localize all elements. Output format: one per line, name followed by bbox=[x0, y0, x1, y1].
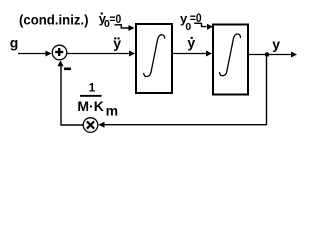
integral sign in U1 bbox=[144, 35, 165, 77]
svg-text:1: 1 bbox=[89, 83, 96, 95]
wire g to summing junction bbox=[18, 53, 47, 55]
svg-text:y: y bbox=[187, 34, 195, 50]
svg-text:(cond.iniz.): (cond.iniz.) bbox=[19, 11, 89, 27]
svg-text:=0: =0 bbox=[110, 14, 122, 26]
arrowhead into summing junction bbox=[58, 60, 64, 66]
svg-text:M·K: M·K bbox=[77, 98, 103, 114]
multiplier junction X1 bbox=[83, 118, 98, 133]
svg-text:g: g bbox=[10, 35, 19, 51]
integrator block U2 bbox=[213, 25, 248, 95]
wire integrator 1 to integrator 2 bbox=[173, 53, 207, 55]
wire integrator 2 to output bbox=[249, 54, 292, 56]
svg-text:m: m bbox=[106, 102, 118, 118]
summing junction S1 bbox=[52, 45, 67, 60]
svg-text:y: y bbox=[272, 36, 280, 52]
integrator block U1 bbox=[136, 24, 172, 93]
wire feedback vertical drop bbox=[266, 55, 268, 126]
arrowhead into multiplier bbox=[98, 122, 104, 128]
junction node on output wire bbox=[265, 52, 270, 57]
wire feedback bottom left segment bbox=[61, 124, 84, 126]
wire feedback bottom right segment bbox=[103, 124, 267, 126]
integral sign in U2 bbox=[219, 34, 240, 76]
minus sign at summing junction bbox=[64, 68, 71, 71]
wire summing junction to integrator 1 bbox=[67, 53, 130, 55]
wire initial condition 2 into integrator 2 bbox=[202, 23, 207, 26]
wire feedback riser bbox=[60, 65, 62, 125]
wire initial condition 1 into integrator 1 bbox=[121, 25, 129, 28]
